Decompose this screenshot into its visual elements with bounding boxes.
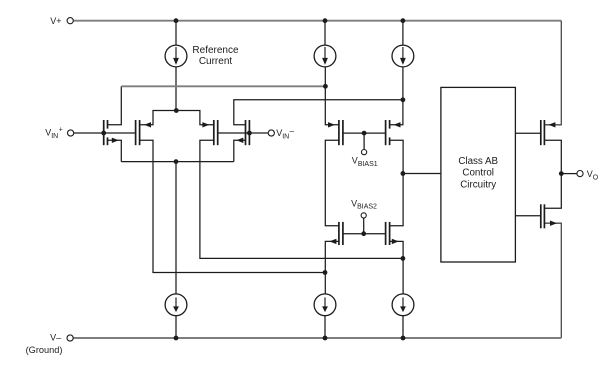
svg-text:Current: Current xyxy=(199,56,233,67)
svg-text:Control: Control xyxy=(462,168,494,179)
svg-text:Circuitry: Circuitry xyxy=(460,179,496,190)
svg-text:Class AB: Class AB xyxy=(458,156,498,167)
svg-text:V–: V– xyxy=(50,332,61,342)
svg-text:(Ground): (Ground) xyxy=(26,345,63,355)
svg-text:Reference: Reference xyxy=(192,45,239,56)
svg-text:V+: V+ xyxy=(50,16,61,26)
